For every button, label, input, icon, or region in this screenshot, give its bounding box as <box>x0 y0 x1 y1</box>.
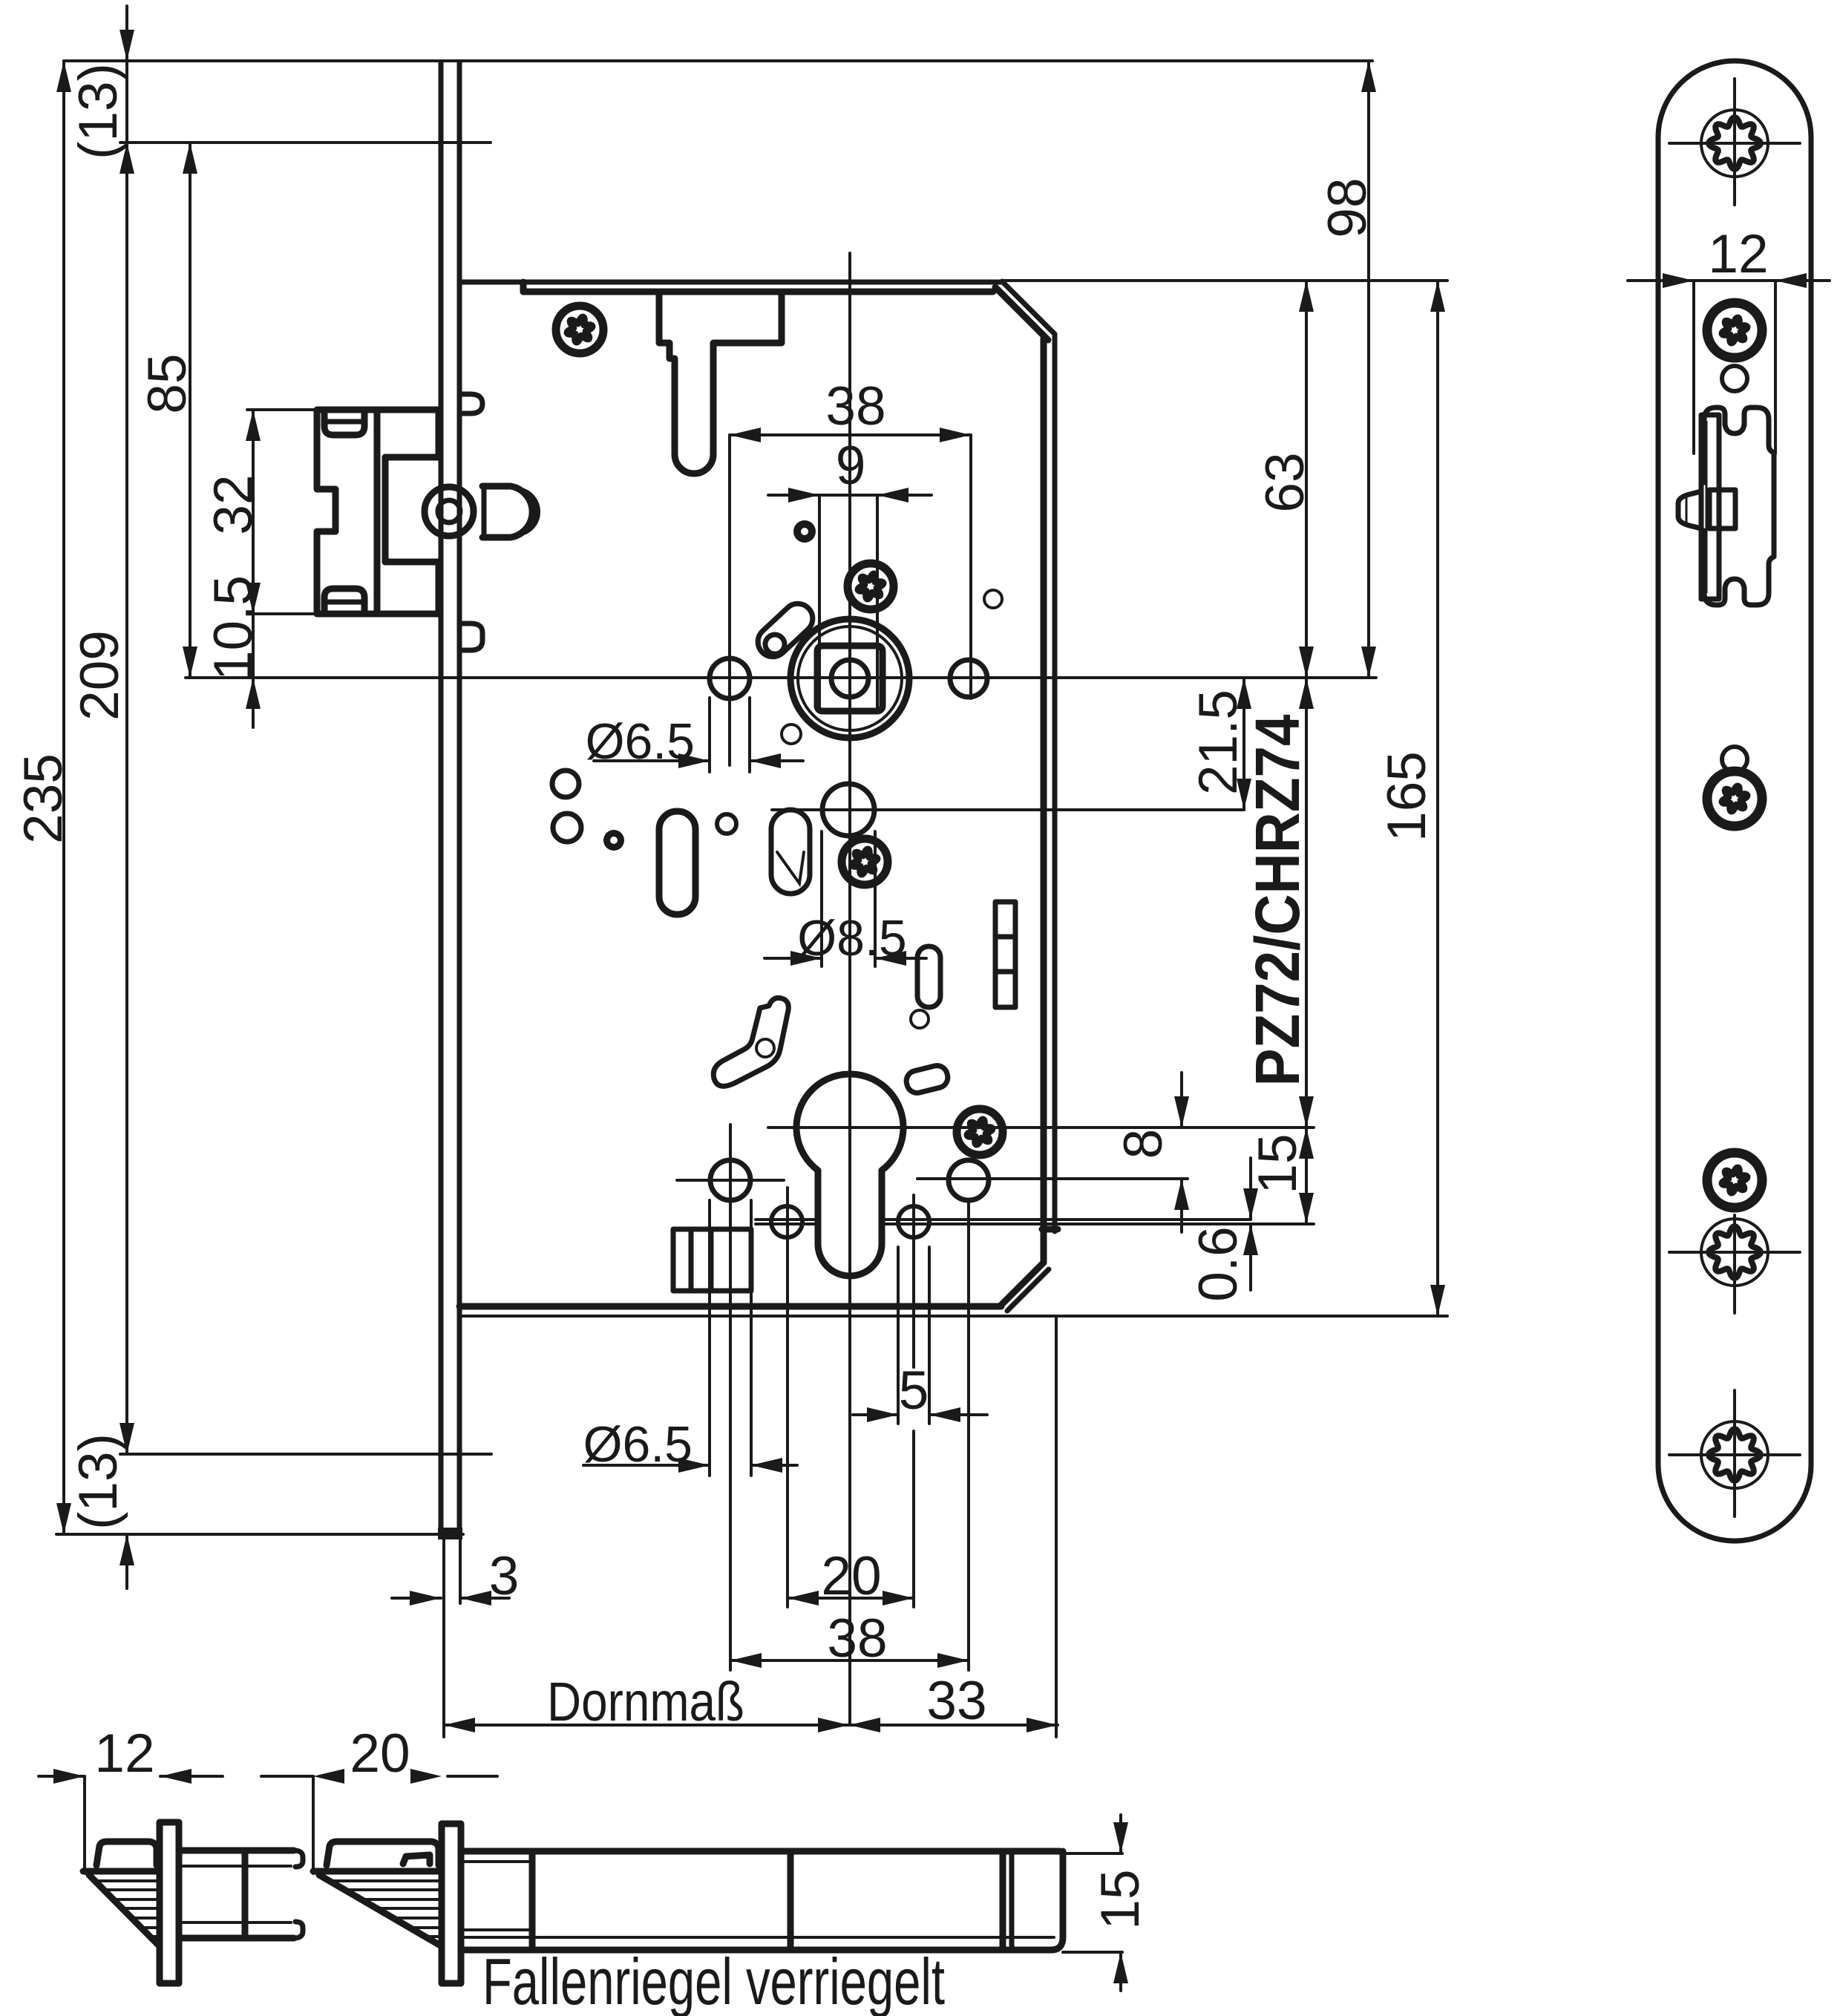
svg-text:38: 38 <box>825 376 885 436</box>
svg-text:(13): (13) <box>68 63 128 160</box>
svg-text:0.6: 0.6 <box>1188 1226 1248 1301</box>
svg-text:98: 98 <box>1317 177 1378 238</box>
svg-text:3: 3 <box>489 1546 520 1606</box>
svg-text:Ø6.5: Ø6.5 <box>586 713 695 770</box>
svg-text:12: 12 <box>94 1724 154 1784</box>
svg-text:38: 38 <box>827 1608 887 1669</box>
svg-text:5: 5 <box>899 1361 929 1421</box>
svg-text:Ø8.5: Ø8.5 <box>797 910 906 966</box>
svg-text:8: 8 <box>1113 1129 1173 1159</box>
svg-text:10.5: 10.5 <box>203 575 263 681</box>
svg-text:209: 209 <box>70 630 130 721</box>
svg-text:235: 235 <box>13 753 73 844</box>
svg-text:Fallenriegel verriegelt: Fallenriegel verriegelt <box>482 1945 945 2016</box>
svg-text:(13): (13) <box>68 1433 128 1530</box>
svg-text:63: 63 <box>1255 452 1315 512</box>
svg-text:9: 9 <box>836 436 866 496</box>
svg-text:PZ72/CHRZ74: PZ72/CHRZ74 <box>1243 714 1312 1086</box>
svg-text:15: 15 <box>1090 1869 1150 1929</box>
svg-text:Dornmaß: Dornmaß <box>547 1671 744 1732</box>
svg-text:20: 20 <box>350 1724 410 1784</box>
svg-text:32: 32 <box>203 474 263 534</box>
svg-text:12: 12 <box>1708 224 1768 284</box>
svg-text:33: 33 <box>926 1671 986 1731</box>
svg-text:21.5: 21.5 <box>1188 690 1248 795</box>
svg-text:20: 20 <box>821 1546 881 1606</box>
svg-text:15: 15 <box>1248 1133 1308 1194</box>
svg-text:Ø6.5: Ø6.5 <box>583 1416 693 1473</box>
svg-text:165: 165 <box>1377 751 1437 842</box>
svg-text:85: 85 <box>137 353 197 413</box>
